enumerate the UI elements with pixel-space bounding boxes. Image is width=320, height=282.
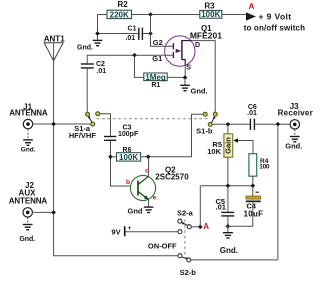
wire R1 left xyxy=(135,55,144,77)
svg-text:Gnd.: Gnd. xyxy=(21,147,36,154)
switch S1-a contacts xyxy=(86,112,90,116)
dashed mechanical link S1 xyxy=(97,118,208,120)
svg-text:Gnd.: Gnd. xyxy=(19,236,35,243)
svg-text:100K: 100K xyxy=(119,153,138,162)
wire C2 top / G1 lead xyxy=(87,55,173,63)
wire S1-a throw2 to C3 xyxy=(100,114,111,136)
svg-text:Gnd: Gnd xyxy=(128,207,143,216)
ground Q1 source xyxy=(184,78,186,85)
svg-text:b: b xyxy=(126,179,130,186)
svg-text:100pF: 100pF xyxy=(118,131,139,138)
ground J2 xyxy=(27,217,29,224)
svg-text:c: c xyxy=(145,167,149,174)
svg-text:10uF: 10uF xyxy=(244,209,264,218)
node junction C1 right on vertical xyxy=(148,31,153,36)
R5 wiper arrow xyxy=(233,138,238,143)
wire J1 to S1-a common xyxy=(33,123,91,125)
resistor R2 xyxy=(107,10,132,18)
arrow +9V xyxy=(246,12,256,20)
wire source down xyxy=(184,65,186,78)
resistor R3 xyxy=(200,10,222,18)
resistor R4 xyxy=(249,154,257,177)
svg-text:+ 9 Volt: + 9 Volt xyxy=(259,11,292,21)
svg-text:S2-b: S2-b xyxy=(180,268,197,277)
Q1 gate bar G1 xyxy=(172,52,174,58)
switch S1-a arm xyxy=(89,116,92,122)
svg-text:Gnd.: Gnd. xyxy=(285,142,302,151)
wire S2-b right to bus xyxy=(191,259,278,261)
wire collector up to R6 node xyxy=(148,157,150,177)
wire C1 right xyxy=(143,33,151,35)
wire distribution A-node xyxy=(200,185,253,187)
capacitor C3 xyxy=(104,137,116,141)
svg-text:9V: 9V xyxy=(111,227,120,236)
capacitor C2 xyxy=(81,64,94,68)
potentiometer R5 Gain xyxy=(227,124,229,134)
resistor R6 xyxy=(117,153,141,161)
ground top-left (R2/C1) xyxy=(93,40,103,45)
svg-text:220K: 220K xyxy=(110,10,129,19)
Q2 collector diagonal xyxy=(138,176,149,184)
wire C3 down to base corner xyxy=(111,141,131,186)
svg-text:Gnd.: Gnd. xyxy=(77,45,93,52)
svg-text:ON-OFF: ON-OFF xyxy=(148,241,177,250)
transistor Q2 circle xyxy=(130,175,155,200)
svg-text:Gnd.: Gnd. xyxy=(220,246,238,255)
node junction C3/R6 xyxy=(108,155,113,160)
node junction right bus xyxy=(276,122,281,127)
Q2 emitter diagonal with arrow xyxy=(138,192,149,200)
wire R6 left xyxy=(111,156,117,158)
wire S2-a to node A xyxy=(191,226,200,228)
Q1 drain stub xyxy=(182,40,192,42)
svg-text:Gain: Gain xyxy=(224,137,233,154)
wire S1-b common to C6 xyxy=(212,123,250,125)
svg-text:.01: .01 xyxy=(125,35,135,42)
svg-text:Gnd.: Gnd. xyxy=(191,87,208,96)
wire left bus ANT1 down to bottom xyxy=(54,61,178,256)
svg-text:HF/VHF: HF/VHF xyxy=(69,131,97,140)
ground J1 xyxy=(27,129,29,139)
wire C1 left xyxy=(98,33,139,35)
wire R2 to R3 xyxy=(132,14,200,16)
svg-text:2SC2570: 2SC2570 xyxy=(155,173,189,182)
node junction G1/R1 xyxy=(132,53,137,58)
svg-text:e: e xyxy=(153,195,157,202)
Q1 channel xyxy=(181,40,183,60)
wire R5 bottom xyxy=(227,157,229,186)
node junction S/R1/gnd xyxy=(183,75,188,80)
ground Q2 emitter xyxy=(144,207,154,212)
svg-text:S: S xyxy=(186,65,191,72)
node junction J1/bus xyxy=(51,122,56,127)
wire right bus down xyxy=(277,124,279,260)
svg-text:to on/off switch: to on/off switch xyxy=(244,23,306,32)
wire J2 to bus xyxy=(32,211,53,213)
svg-text:MFE201: MFE201 xyxy=(190,31,222,41)
resistor R1 xyxy=(144,73,167,81)
ground J3 xyxy=(294,129,296,136)
wire drain to S1-b throw xyxy=(192,41,216,113)
svg-text:Receiver: Receiver xyxy=(278,109,313,118)
wire C6 to J3 xyxy=(255,123,290,125)
wire vertical to G2 xyxy=(151,15,173,47)
Q1 substrate arrow xyxy=(176,49,182,53)
wire node A up to distribution xyxy=(199,186,201,227)
ground C5/C4 xyxy=(227,226,229,232)
wire C2 bottom to S1-a xyxy=(86,69,88,113)
svg-text:S2-a: S2-a xyxy=(177,209,194,218)
wire R4 bottom xyxy=(252,176,254,186)
node junction A xyxy=(198,225,203,230)
svg-text:ANTENNA: ANTENNA xyxy=(9,197,48,206)
svg-text:ANT1: ANT1 xyxy=(44,35,65,44)
capacitor C4 electrolytic xyxy=(252,186,254,196)
svg-text:1Meg: 1Meg xyxy=(145,73,166,82)
Q2 base bar xyxy=(137,181,139,196)
svg-text:100: 100 xyxy=(259,164,270,171)
svg-text:A: A xyxy=(203,222,209,231)
wire emitter down xyxy=(148,200,150,207)
capacitor C1 xyxy=(139,28,143,40)
Q1 gate bar G2 xyxy=(172,43,174,49)
node junction C1 left xyxy=(95,31,100,36)
switch S2-b xyxy=(182,257,188,259)
svg-text:S1-b: S1-b xyxy=(196,127,213,136)
node junction J2/bus xyxy=(51,210,56,215)
capacitor C5 xyxy=(227,186,229,212)
svg-text:ANTENNA: ANTENNA xyxy=(9,109,48,118)
wire R2 left lead down to ground xyxy=(98,15,108,40)
capacitor C6 xyxy=(250,119,254,130)
node junction R2/R3/G2 xyxy=(148,12,153,17)
svg-text:D: D xyxy=(195,42,200,49)
svg-text:C2: C2 xyxy=(96,61,105,68)
svg-text:100K: 100K xyxy=(201,10,220,19)
svg-text:+: + xyxy=(128,225,132,232)
node junction C4 top xyxy=(251,184,256,189)
node junction C5 top xyxy=(226,184,231,189)
wire R3 to arrow xyxy=(222,14,246,16)
switch S1-b arm xyxy=(211,117,214,123)
node junction R6/collector xyxy=(146,155,151,160)
svg-text:.01: .01 xyxy=(216,203,226,212)
svg-text:C1: C1 xyxy=(128,25,137,32)
node junction C5 bottom xyxy=(226,224,231,229)
wire R6 right to S1-b throw1 xyxy=(141,114,204,157)
transistor Q1 MFE201 circle xyxy=(165,36,195,66)
wire battery to S2-a xyxy=(126,231,178,233)
node junction gain-top xyxy=(226,122,231,127)
switch S1-b contacts xyxy=(203,112,207,116)
svg-text:R2: R2 xyxy=(118,0,129,9)
svg-text:.01: .01 xyxy=(247,110,257,117)
svg-text:G2: G2 xyxy=(153,38,163,47)
Q1 source stub xyxy=(182,60,185,65)
svg-text:.01: .01 xyxy=(96,68,106,75)
svg-text:R1: R1 xyxy=(151,82,160,89)
dashed mechanical link S2 xyxy=(184,219,186,257)
svg-text:10K: 10K xyxy=(207,147,221,156)
wire R1 right xyxy=(167,76,185,78)
svg-text:A: A xyxy=(249,2,255,11)
